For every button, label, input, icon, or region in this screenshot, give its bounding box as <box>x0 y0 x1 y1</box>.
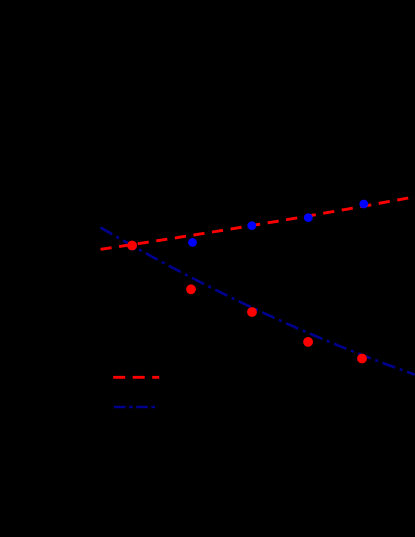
blue data marker 3 <box>304 213 313 222</box>
red data marker 3 <box>247 307 257 317</box>
red data marker 4 <box>303 337 313 347</box>
blue data marker 1 <box>188 238 197 247</box>
red data marker 2 <box>186 284 196 294</box>
blue data marker 4 <box>359 200 368 209</box>
legend red dashed line sample <box>113 376 159 379</box>
red data marker 5 <box>357 354 367 364</box>
blue data marker 2 <box>247 221 256 230</box>
blue dash-dot fit line (descending) <box>101 228 415 375</box>
red data marker 1 <box>127 241 137 251</box>
red dashed fit line (ascending) <box>101 197 415 250</box>
legend blue dash-dot line sample <box>114 406 157 409</box>
blue data marker (hidden under red marker at crossing) <box>128 242 137 251</box>
